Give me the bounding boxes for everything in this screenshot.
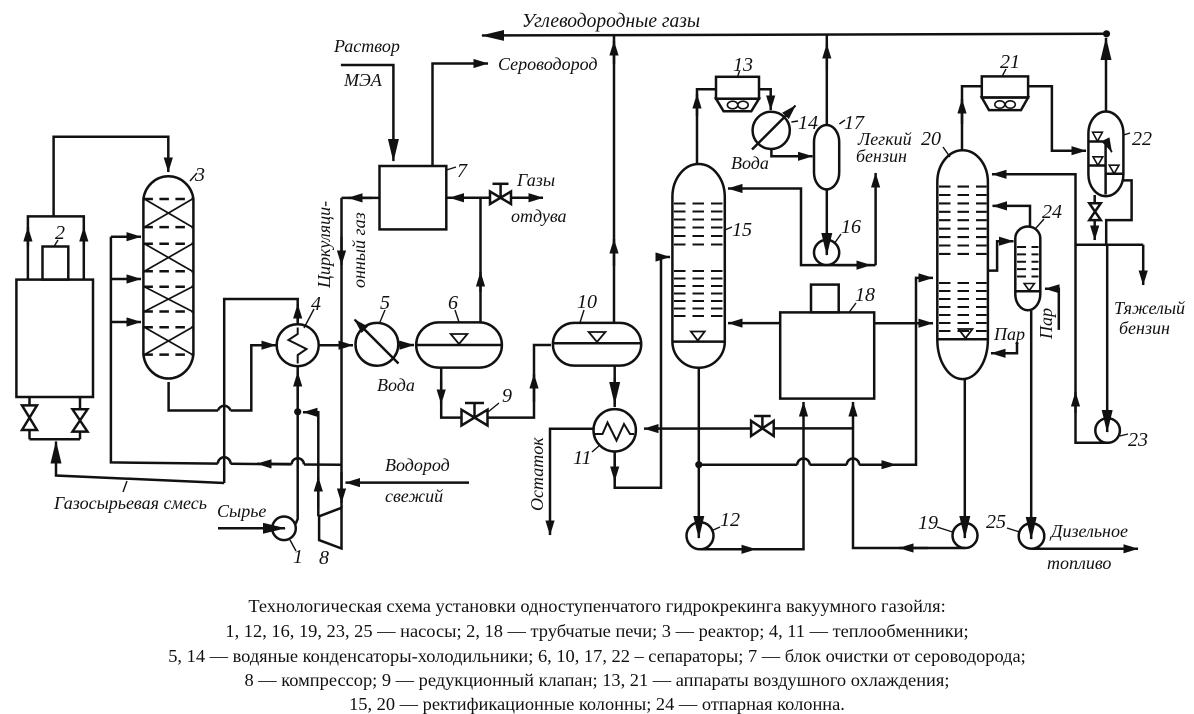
svg-text:10: 10 [577,291,597,313]
wire: circulating gas line from block 7 down to compressor 8 [340,198,343,508]
svg-text:11: 11 [573,447,592,469]
wire: column 15 overhead to air cooler 13 [697,89,716,165]
svg-text:Технологическая схема установк: Технологическая схема установки одноступ… [248,596,945,616]
separator 22 [1088,112,1123,197]
node: junction dot on gas header [1103,30,1110,37]
heat exchanger 4 [277,324,319,366]
wire: hydrogen sulfide offgas from block 7 [433,64,489,167]
wire: purified gas from block 7 to circulating line [342,197,380,200]
column 20 tray lines [939,187,987,331]
svg-text:4: 4 [311,293,321,315]
wire: hot bottoms into exchanger 11 from right [644,427,751,430]
svg-text:Сырье: Сырье [217,501,266,521]
leader line for label 15 [725,227,732,230]
furnace 2 outlet valve left [28,397,31,405]
svg-text:24: 24 [1042,201,1062,223]
pump 23 [1095,418,1120,443]
wire: pump 23 discharge riser to column 20 reflux [992,174,1108,443]
wire: raw feed line into pump 1 [218,527,285,530]
wire: hot-oil tie line through reduction valve to exchanger 11 [774,427,804,430]
wire: separator 6 liquid to reduction valve 9 [441,368,461,418]
wire: reactor quench inlet 3 [111,321,141,324]
wire: column 20 side draw to stripper 24 [988,241,1014,270]
leader line for label 16 [834,234,841,244]
furnace 2 body [16,280,93,397]
wire: stripping gases line with tee from separator 6 riser [446,197,489,200]
leader line for label 2 [54,240,58,247]
svg-text:1: 1 [293,546,303,568]
leader line for label 24 [1036,219,1044,228]
pump 1 [272,517,296,541]
svg-text:Вода: Вода [377,375,415,395]
svg-text:Газосырьевая смесь: Газосырьевая смесь [53,493,207,513]
pump 25 [1019,523,1045,549]
wire: residue out of exchanger 11 [550,429,594,535]
wire: quench gas line from circulating gas tee to reactor quench header [304,463,342,466]
wire: reactor quench inlet 2 [111,278,141,281]
wire: separator 17 gas riser to header [826,35,829,126]
svg-text:Вода: Вода [731,153,769,173]
wire: cooler 5 to separator 6 [398,344,414,347]
reactor 3 shell [143,176,193,378]
leader line for label 22 [1124,133,1130,135]
svg-text:Циркуляци-: Циркуляци- [314,201,334,289]
svg-text:Раствор: Раствор [333,36,400,56]
wire: steam into stripper 24 [1045,289,1059,330]
wire: light gasoline product line [874,173,877,265]
leader line for label 12 [711,527,720,531]
svg-text:Тяжелый: Тяжелый [1114,298,1185,318]
wire: water cooler 14 to separator 17 [771,150,812,156]
air cooler 13 [716,77,759,99]
wire: air cooler 13 to water cooler 14 [759,89,771,110]
svg-text:топливо: топливо [1047,553,1111,573]
compressor 8 [319,508,341,549]
svg-text:Пар: Пар [1036,308,1056,340]
wire: exchanger 4 to water cooler 5 [319,344,353,347]
leader line for label 14 [791,121,798,122]
svg-text:бензин: бензин [1119,318,1170,338]
svg-text:онный газ: онный газ [349,212,369,288]
svg-text:21: 21 [1000,51,1020,73]
leader line for label 18 [849,303,856,312]
svg-text:15, 20 — ректификационные коло: 15, 20 — ректификационные колонны; 24 — … [349,694,845,714]
purge gas valve at block 7 [490,192,511,205]
leader line for label 10 [580,310,584,323]
pump 16 [814,240,839,265]
node: junction dot at column 15 bottoms tee [695,461,702,468]
leader line for label 13 [738,71,740,77]
svg-text:13: 13 [733,54,753,76]
svg-text:Остаток: Остаток [527,437,547,511]
svg-text:Водород: Водород [385,455,450,475]
svg-text:5: 5 [380,292,390,314]
pump 19 [953,523,978,548]
water cooler 14 [753,112,790,149]
wire: column 20 bottoms down to pump 19 [964,379,967,538]
svg-text:свежий: свежий [385,486,443,506]
column 24 tray lines [1017,247,1039,277]
svg-text:7: 7 [457,160,468,182]
wire: fresh hydrogen supply line [346,481,470,484]
svg-text:23: 23 [1128,429,1148,451]
svg-text:МЭА: МЭА [343,70,383,90]
svg-text:16: 16 [841,216,861,238]
wire: air cooler 21 to separator 22 [1028,86,1086,151]
leader line for label 21 [1002,69,1006,76]
leader line for label 4 [304,309,314,328]
wire: furnace 18 outlet to column 20 [874,322,933,325]
svg-text:5, 14 — водяные конденсаторы-х: 5, 14 — водяные конденсаторы-холодильник… [168,646,1026,666]
wire: separator 22 liquid through valve down [1093,195,1096,203]
separator 10 [553,323,641,366]
reactor 3 catalyst bed lines [143,199,193,355]
leader line for label 11 [592,445,600,452]
reduction valve at furnace 18 [751,421,774,436]
node: junction dot of pump 1 and compressor 8 lines [294,408,301,415]
svg-text:бензин: бензин [856,146,907,166]
leader line for label 25 [1007,528,1020,532]
svg-text:1, 12, 16, 19, 23, 25 — насосы: 1, 12, 16, 19, 23, 25 — насосы; 2, 18 — … [225,621,968,641]
wire: hydrocarbon gases header line [482,34,1107,36]
leader line for label 3 [190,173,197,181]
rectification column 20 [937,150,988,379]
wire: separator 22 gas riser to header junction [1105,38,1108,112]
svg-text:14: 14 [798,112,818,134]
furnace 2 valve manifold [30,438,81,441]
wire: stripper 24 overhead return to column 20 [993,206,1031,227]
wire: compressor 8 discharge to junction dot [303,412,318,516]
wire: separator 10 gas riser to header [613,35,616,323]
stripping column 24 [1015,226,1040,310]
leader line for label 1 [290,540,296,551]
svg-text:3: 3 [194,164,205,186]
wire: diesel fuel product line from pump 25 [1032,548,1139,551]
air cooler 21 [982,76,1028,97]
svg-text:Газы: Газы [516,170,555,190]
wire: column 15 bottoms feed over to column 20 [699,463,798,466]
wire: separator 22 side outlet loop [1106,180,1131,244]
separator 17 [814,125,839,189]
reduction valve 9 [462,410,488,426]
H2S purification block 7 [380,166,447,229]
leader line for label 20 [943,147,950,157]
svg-text:22: 22 [1132,128,1152,150]
svg-text:19: 19 [918,512,938,534]
leader line for label 19 [937,527,953,532]
wire: separator 6 gas riser [479,198,482,323]
svg-text:Сероводород: Сероводород [498,54,597,74]
svg-text:8: 8 [319,547,329,569]
heat exchanger 11 [594,409,636,451]
leader line for label 17 [839,120,845,124]
valve under separator 22 [1089,203,1101,211]
leader line for gas-feed mixture label [123,481,127,492]
wire: pump 16 discharge reflux to column 15 [728,189,876,266]
leader line for label 9 [488,403,499,412]
wire: furnace 2 outlet to reactor 3 top [54,137,169,217]
wire: pump 19 discharge riser into furnace 18 [853,402,965,548]
reactor 3 catalyst bed crosses [144,199,192,355]
wire: steam into column 20 [991,342,1017,353]
wire: pump 23 suction line [1106,245,1109,432]
svg-text:9: 9 [502,385,512,407]
svg-text:2: 2 [55,222,65,244]
column 15 tray lines [674,204,723,317]
svg-text:Углеводородные газы: Углеводородные газы [522,11,700,32]
wire: MEA solution supply into block 7 [341,65,394,161]
wire: stripper 24 bottoms down to pump 25 [1030,310,1033,539]
pump 12 [687,522,714,549]
furnace 2 burner box [43,247,69,280]
wire: separator 10 liquid down to exchanger 11 [613,366,616,407]
wire: reactor quench inlet 1 [111,235,141,238]
svg-text:25: 25 [986,511,1006,533]
tube furnace 18 [780,312,874,398]
svg-text:отдува: отдува [511,206,567,226]
wire: furnace 18 outlet to column 15 [728,322,780,325]
leader line for label 5 [380,310,385,322]
svg-text:12: 12 [720,509,740,531]
wire: reduction valve 9 to separator 10 [488,345,552,418]
wire: heavy gasoline product line [1142,245,1145,285]
wire: gas-feed mixture line to furnace 2 manifold [56,442,224,484]
water cooler 5 [356,323,399,366]
wire: reflux collect line below separator 22 [1076,243,1144,246]
wire: pump 12 discharge riser into furnace 18 [700,402,804,549]
svg-text:15: 15 [732,219,752,241]
furnace 2 riser pipes with header [28,216,84,279]
wire: exchanger 4 top outlet loop down left side [224,299,298,483]
wire: column 15 bottoms down to pump 12 [698,368,701,538]
leader line for label 7 [447,167,457,170]
svg-text:Пар: Пар [993,324,1025,344]
wire: reactor 3 bottom outlet to exchanger 4 inlet [169,382,218,411]
furnace 2 outlet valve right [79,397,82,409]
wire: heated feed from exchanger 11 to column 15 [615,257,670,488]
svg-text:6: 6 [448,292,458,314]
separator 6 [416,322,502,367]
svg-text:18: 18 [855,284,875,306]
wire: feed pump 1 discharge up to exchanger 4 bottom [296,366,298,524]
svg-text:Дизельное: Дизельное [1049,521,1128,541]
rectification column 15 [672,164,724,368]
leader line for label 6 [455,310,459,322]
leader line for label 23 [1120,434,1128,436]
svg-text:8 — компрессор; 9 — редукционн: 8 — компрессор; 9 — редукционный клапан;… [245,670,950,690]
svg-text:20: 20 [921,128,941,150]
wire: separator 17 liquid down to pump 16 [826,189,829,255]
wire: column 20 overhead to air cooler 21 [962,86,982,151]
